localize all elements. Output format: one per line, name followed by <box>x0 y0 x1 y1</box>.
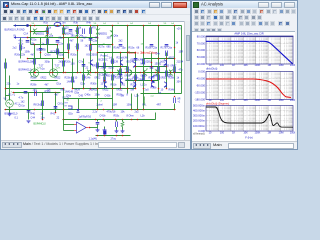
resistor R24 <box>135 75 137 81</box>
wire h7 y58 <box>144 58 175 60</box>
resistor R29 <box>83 75 85 81</box>
svg-text:2u0: 2u0 <box>145 89 150 92</box>
wire lb v42 <box>42 93 44 120</box>
schematic canvas <box>1 21 184 140</box>
svg-text:v(Xmmod): v(Xmmod) <box>193 132 205 135</box>
svg-text:0R47: 0R47 <box>171 65 177 68</box>
svg-text:BC560C: BC560C <box>99 74 108 77</box>
junction jdot 38 <box>104 80 106 82</box>
wire h6 y58 <box>28 58 64 60</box>
svg-text:50.000: 50.000 <box>197 55 206 59</box>
wire col20 x151 <box>151 53 153 81</box>
junction jdot 25 <box>63 72 65 74</box>
window title <box>201 2 223 7</box>
svg-text:7: 7 <box>75 47 77 49</box>
resistor R3 <box>77 28 79 35</box>
junction jdot 19 <box>166 58 168 60</box>
junction jdot 53 <box>135 88 137 90</box>
svg-text:R17a: R17a <box>161 47 167 50</box>
svg-text:2N5551: 2N5551 <box>36 33 45 36</box>
svg-text:BGR4HCL0: BGR4HCL0 <box>19 69 33 72</box>
svg-text:22: 22 <box>57 117 60 120</box>
junction rail dot x158 <box>158 25 160 27</box>
svg-text:10K: 10K <box>243 64 248 67</box>
junction brail2 dot x122 <box>122 119 124 121</box>
junction zobel dot2 <box>104 135 106 137</box>
svg-text:680: 680 <box>107 46 112 49</box>
wire col12 x90 <box>90 26 92 73</box>
transistor Q4 <box>75 31 78 37</box>
wire lb v55 <box>55 93 57 113</box>
svg-text:8R: 8R <box>178 99 181 101</box>
op-amp E1 <box>77 122 87 133</box>
svg-text:C42b: C42b <box>105 95 111 98</box>
gain curve db(v(Out)) <box>206 41 293 64</box>
junction jdot 50 <box>83 88 85 90</box>
junction rail dot x143 <box>143 25 145 27</box>
wire col18 x135 <box>135 53 137 89</box>
junction rail dot x47 <box>47 25 49 27</box>
wire col5 x52 <box>52 59 54 73</box>
wire col11 x83 <box>83 59 85 89</box>
svg-text:0R22: 0R22 <box>95 77 101 80</box>
svg-text:BD139: BD139 <box>111 61 119 64</box>
plot canvas border <box>192 31 295 33</box>
ground C41 ground <box>96 129 100 132</box>
svg-text:R22b: R22b <box>31 77 37 80</box>
resistor R21 <box>20 45 22 51</box>
svg-text:100n: 100n <box>95 94 101 97</box>
svg-text:1k0: 1k0 <box>33 89 38 92</box>
junction jdot 17 <box>143 52 145 54</box>
junction jdot 42 <box>135 80 137 82</box>
schematic vertical scrollbar <box>184 21 190 140</box>
capacitor C8 <box>150 67 154 69</box>
wire col13 x97 <box>97 26 99 89</box>
svg-text:0.1: 0.1 <box>15 117 19 120</box>
pin pin 5 <box>95 72 96 73</box>
svg-text:C7a: C7a <box>79 61 84 64</box>
junction jdot 9 <box>57 44 59 46</box>
svg-text:15033: 15033 <box>163 65 170 68</box>
svg-text:100K: 100K <box>254 131 260 134</box>
svg-text:R27a: R27a <box>99 46 105 49</box>
svg-text:R40: R40 <box>31 113 36 116</box>
wire bottom rail 1 <box>5 109 176 111</box>
capacitor C20 <box>119 75 123 77</box>
resistor R55 <box>174 98 176 104</box>
wire col143 down <box>143 94 145 110</box>
svg-text:C41b: C41b <box>100 115 106 118</box>
wire col131 down <box>131 94 133 110</box>
svg-text:NJW: NJW <box>138 59 144 62</box>
svg-text:R31b: R31b <box>111 84 117 87</box>
svg-text:0R1: 0R1 <box>121 84 126 87</box>
svg-text:b1: b1 <box>104 23 107 25</box>
plot client area <box>192 31 295 141</box>
svg-text:vb: vb <box>67 100 70 102</box>
svg-text:-90.000: -90.000 <box>196 83 206 87</box>
capacitor C42 polarized <box>103 131 106 135</box>
svg-text:100k: 100k <box>25 51 31 54</box>
resistor R61 <box>158 75 160 81</box>
transistor Q1 <box>33 29 37 35</box>
junction rail dot x57 <box>57 25 59 27</box>
svg-text:2N5551: 2N5551 <box>99 33 108 36</box>
resistor R54 <box>121 122 124 127</box>
svg-text:R16a: R16a <box>146 47 152 50</box>
svg-text:470u/16: 470u/16 <box>107 111 116 114</box>
svg-text:R20a: R20a <box>71 54 77 57</box>
svg-text:1n: 1n <box>42 43 45 46</box>
svg-text:300.000m: 300.000m <box>193 114 206 118</box>
svg-text:860: 860 <box>61 89 66 92</box>
svg-text:100: 100 <box>220 64 225 67</box>
svg-text:56: 56 <box>81 40 84 43</box>
junction zobel dot1 <box>97 135 99 137</box>
junction jdot 41 <box>127 88 129 90</box>
svg-text:10R: 10R <box>113 104 118 107</box>
svg-text:1k2: 1k2 <box>85 45 90 48</box>
svg-text:L1b: L1b <box>141 115 146 118</box>
svg-text:100K: 100K <box>254 64 260 67</box>
junction rail dot x63 <box>63 25 65 27</box>
phase plot grid <box>206 72 293 100</box>
pin r55 pin <box>174 96 175 97</box>
svg-text:C40a: C40a <box>85 94 91 97</box>
pin in2 end <box>27 37 28 38</box>
wire r54 bot <box>122 127 124 130</box>
svg-text:21194: 21194 <box>177 61 184 64</box>
junction jdot 43 <box>143 88 145 90</box>
wire col6 x57 <box>57 45 59 59</box>
svg-text:4R7: 4R7 <box>157 104 162 107</box>
svg-text:0R22: 0R22 <box>103 89 109 92</box>
svg-text:100M: 100M <box>290 131 295 134</box>
wire c41 drop <box>97 120 99 122</box>
junction jdot 40 <box>120 88 122 90</box>
transistor Q23 <box>133 82 135 88</box>
impedance plot grid <box>206 106 293 132</box>
svg-text:470: 470 <box>92 27 97 30</box>
pin pin 8 <box>140 72 141 73</box>
svg-text:9: 9 <box>118 23 120 25</box>
junction brail dot x34 <box>34 109 36 111</box>
wire col9 x72 <box>72 59 74 89</box>
junction jdot 28 <box>97 72 99 74</box>
pin pin 7 <box>125 72 126 73</box>
svg-text:1N4007: 1N4007 <box>125 79 134 82</box>
wire v1 top lead <box>9 96 11 101</box>
junction jdot 18 <box>158 58 160 60</box>
resistor R28 <box>72 77 74 83</box>
junction jdot 44 <box>151 80 153 82</box>
svg-text:V3: V3 <box>4 99 8 101</box>
phase plot frame <box>206 72 293 100</box>
junction jdot 49 <box>72 88 74 90</box>
junction jdot 14 <box>120 52 122 54</box>
capacitor C1 <box>39 49 43 51</box>
wire oa out wire <box>90 127 98 129</box>
capacitor C12 <box>54 107 58 109</box>
wire col24 x181 <box>181 26 183 94</box>
svg-text:4.7u: 4.7u <box>19 43 24 46</box>
op-amp E1 pins <box>74 125 89 131</box>
transistor Q25 <box>164 82 166 88</box>
svg-text:I1 5m: I1 5m <box>60 22 66 25</box>
svg-text:x1a: x1a <box>41 68 46 71</box>
transistor Q6 <box>110 31 113 37</box>
svg-text:C6a: C6a <box>168 47 173 50</box>
pin pin 2 <box>50 72 51 73</box>
resistor R23 <box>120 69 122 75</box>
junction brail2 dot x131 <box>131 119 133 121</box>
junction jdot 29 <box>112 72 114 74</box>
wire col22 x166 <box>166 53 168 89</box>
svg-text:8: 8 <box>147 69 149 71</box>
wire col26 x9 <box>9 76 11 101</box>
wire col16 x120 <box>120 53 122 89</box>
junction jdot 45 <box>158 88 160 90</box>
wire h1 y31 <box>31 31 48 33</box>
svg-text:1k0: 1k0 <box>71 35 76 38</box>
junction rail dot x30 <box>30 25 32 27</box>
svg-text:100K: 100K <box>254 99 260 102</box>
junction jdot 10 <box>40 52 42 54</box>
svg-text:D6a: D6a <box>67 95 72 98</box>
pin pin 15 <box>68 50 69 51</box>
svg-text:BC550C: BC550C <box>99 59 108 62</box>
resistor R62 <box>143 59 145 65</box>
capacitor C10 <box>24 92 28 94</box>
wire h4 y44 <box>91 44 113 46</box>
svg-text:0R22: 0R22 <box>55 77 61 80</box>
svg-text:22: 22 <box>86 67 89 70</box>
svg-text:330: 330 <box>107 37 112 40</box>
svg-text:R32b: R32b <box>131 84 137 87</box>
resistor R1 <box>47 28 49 35</box>
svg-text:10: 10 <box>75 77 78 80</box>
svg-text:22p: 22p <box>59 37 64 40</box>
svg-text:D2a: D2a <box>81 83 86 86</box>
wire h10 y72 <box>29 72 182 74</box>
wire col19 x143 <box>143 26 145 94</box>
transistor Q10 (large) <box>49 69 57 77</box>
junction jdot 30 <box>127 72 129 74</box>
svg-text:2k2: 2k2 <box>119 40 124 43</box>
capacitor C9 <box>69 30 73 32</box>
junction jdot 6 <box>90 44 92 46</box>
toolbar row 1 <box>1 8 190 15</box>
wire c42 gnd lead <box>104 127 106 129</box>
junction rail dot x34 <box>34 25 36 27</box>
svg-text:-45.000: -45.000 <box>196 76 206 80</box>
pin pin 14 <box>77 50 78 51</box>
close button <box>284 2 295 8</box>
svg-text:0R22: 0R22 <box>93 65 99 68</box>
junction jdot 32 <box>158 72 160 74</box>
svg-text:4k7: 4k7 <box>55 94 60 97</box>
svg-text:V5: V5 <box>32 23 35 25</box>
junction jdot 35 <box>135 66 137 68</box>
svg-text:C2a: C2a <box>59 43 64 46</box>
svg-text:47u: 47u <box>179 69 184 72</box>
wire col2 x34 <box>34 45 36 73</box>
wire lb v28 <box>28 93 30 120</box>
junction jdot 52 <box>90 88 92 90</box>
svg-text:R41: R41 <box>51 113 56 116</box>
right application window: AC Analysis plots <box>191 0 298 150</box>
wire h14 y88 <box>73 88 136 90</box>
svg-text:330p: 330p <box>45 61 51 64</box>
resistor R20 <box>63 61 65 67</box>
svg-text:1W: 1W <box>121 95 125 98</box>
impedance plot frame <box>206 106 293 132</box>
svg-text:40.000: 40.000 <box>197 62 206 66</box>
svg-text:100.000m: 100.000m <box>193 124 206 128</box>
junction jdot 2 <box>30 31 32 33</box>
svg-text:BLR0610 LR GND: BLR0610 LR GND <box>5 29 25 32</box>
svg-text:8 Ohm: 8 Ohm <box>127 115 134 118</box>
svg-text:0.000: 0.000 <box>198 69 205 73</box>
impedance x labels <box>209 131 297 134</box>
ground C42 ground <box>103 129 107 132</box>
window icon <box>193 2 199 8</box>
svg-text:60.000: 60.000 <box>197 48 206 52</box>
wire col97 down <box>97 89 99 110</box>
impedance curve <box>206 107 293 127</box>
svg-text:1M: 1M <box>268 99 271 102</box>
svg-text:C14: C14 <box>24 33 29 36</box>
transistor Q19 <box>133 62 135 68</box>
transistor Q21 <box>164 60 166 66</box>
wire h8 y66 <box>98 66 128 68</box>
junction jdot 51 <box>97 88 99 90</box>
transistor Q31 <box>91 60 93 66</box>
svg-text:V5: V5 <box>94 23 97 25</box>
svg-text:4k7: 4k7 <box>45 84 50 87</box>
junction jdot 36 <box>151 66 153 68</box>
svg-text:1k: 1k <box>176 42 179 45</box>
svg-text:C5a: C5a <box>153 47 158 50</box>
bottom tab bar <box>192 141 297 149</box>
resistor R14 <box>112 75 114 81</box>
junction jdot 34 <box>120 66 122 68</box>
svg-text:0R47: 0R47 <box>139 79 145 82</box>
transistor Q18 <box>121 60 123 66</box>
transistor Q30 <box>105 82 107 88</box>
capacitor C7 <box>82 65 86 67</box>
resistor R10 <box>68 44 70 50</box>
svg-text:15p: 15p <box>122 47 127 50</box>
wire r53 bot lead <box>116 127 118 130</box>
junction rail dot x77 <box>77 25 79 27</box>
ground G5 <box>27 121 31 123</box>
resistor R37 <box>42 101 44 107</box>
svg-text:0R33: 0R33 <box>125 75 131 78</box>
wire v1 bot lead <box>9 107 11 113</box>
junction brail dot x78 <box>78 109 80 111</box>
svg-text:R-L: R-L <box>143 104 148 107</box>
junction zobel dot4 <box>122 135 124 137</box>
svg-text:5200: 5200 <box>109 67 115 70</box>
wire col8 x68 <box>68 38 70 59</box>
svg-text:2u2: 2u2 <box>135 111 140 114</box>
junction jdot 31 <box>143 72 145 74</box>
capacitor C2 <box>56 41 60 43</box>
svg-text:+1: +1 <box>178 102 181 104</box>
svg-text:F (Hz): F (Hz) <box>245 136 253 140</box>
svg-text:C44: C44 <box>31 117 36 120</box>
svg-text:MJL: MJL <box>161 61 166 64</box>
svg-text:R33b: R33b <box>151 87 157 90</box>
junction brail2 dot x78 <box>78 119 80 121</box>
junction jdot 46 <box>166 88 168 90</box>
junction jdot 22 <box>63 58 65 60</box>
left application window: schematic editor <box>0 0 191 150</box>
svg-text:Q6a: Q6a <box>114 35 119 38</box>
svg-text:10K: 10K <box>243 99 248 102</box>
resistor R36 <box>35 91 37 97</box>
close button <box>173 2 187 8</box>
svg-text:1k: 1k <box>49 27 52 30</box>
svg-text:4k7: 4k7 <box>70 40 75 43</box>
svg-text:D1a: D1a <box>57 83 62 86</box>
wire col78 down <box>78 99 80 110</box>
svg-text:out: out <box>125 68 128 71</box>
pin pin 4 <box>80 72 81 73</box>
junction jdot 20 <box>174 58 176 60</box>
transistor Q20 (large) <box>152 76 155 83</box>
svg-text:500.000m: 500.000m <box>193 103 206 107</box>
svg-text:1k: 1k <box>41 113 44 116</box>
resistor R4 <box>90 28 92 35</box>
transistor Q22 <box>121 78 123 84</box>
svg-text:10k: 10k <box>121 111 126 114</box>
svg-text:4.7u: 4.7u <box>19 97 24 100</box>
svg-text:2u2: 2u2 <box>13 47 18 50</box>
svg-text:8: 8 <box>127 94 129 97</box>
svg-text:100: 100 <box>220 131 225 134</box>
junction brail dot x131 <box>131 109 133 111</box>
junction jdot 23 <box>34 72 36 74</box>
svg-text:1K: 1K <box>232 64 235 67</box>
svg-text:in-: in- <box>65 105 68 108</box>
svg-text:R53c: R53c <box>114 115 120 118</box>
svg-text:R4b: R4b <box>87 22 92 25</box>
pin pin 12 <box>63 34 64 35</box>
junction zobel dot3 <box>116 135 118 137</box>
wire lb wire y92 <box>13 92 61 94</box>
svg-text:MUR: MUR <box>75 89 81 92</box>
pin pin 13 <box>90 50 91 51</box>
svg-text:10n: 10n <box>41 117 46 120</box>
junction brail dot x103 <box>103 109 105 111</box>
svg-text:70.000: 70.000 <box>197 41 206 45</box>
wire V+ top rail <box>14 25 182 27</box>
phase x labels <box>209 99 297 102</box>
junction jdot 26 <box>77 72 79 74</box>
svg-text:35V: 35V <box>177 81 182 84</box>
junction brail dot x97 <box>97 109 99 111</box>
svg-text:AMP 0.8L 15ns_asc.CIR: AMP 0.8L 15ns_asc.CIR <box>234 32 263 36</box>
wire col7 x63 <box>63 26 65 73</box>
pin pin 11 <box>47 34 48 35</box>
svg-text:R21a: R21a <box>31 39 37 42</box>
resistor R60 <box>112 59 114 65</box>
pin pin 1 <box>35 72 36 73</box>
svg-text:Q10a: Q10a <box>45 54 52 57</box>
